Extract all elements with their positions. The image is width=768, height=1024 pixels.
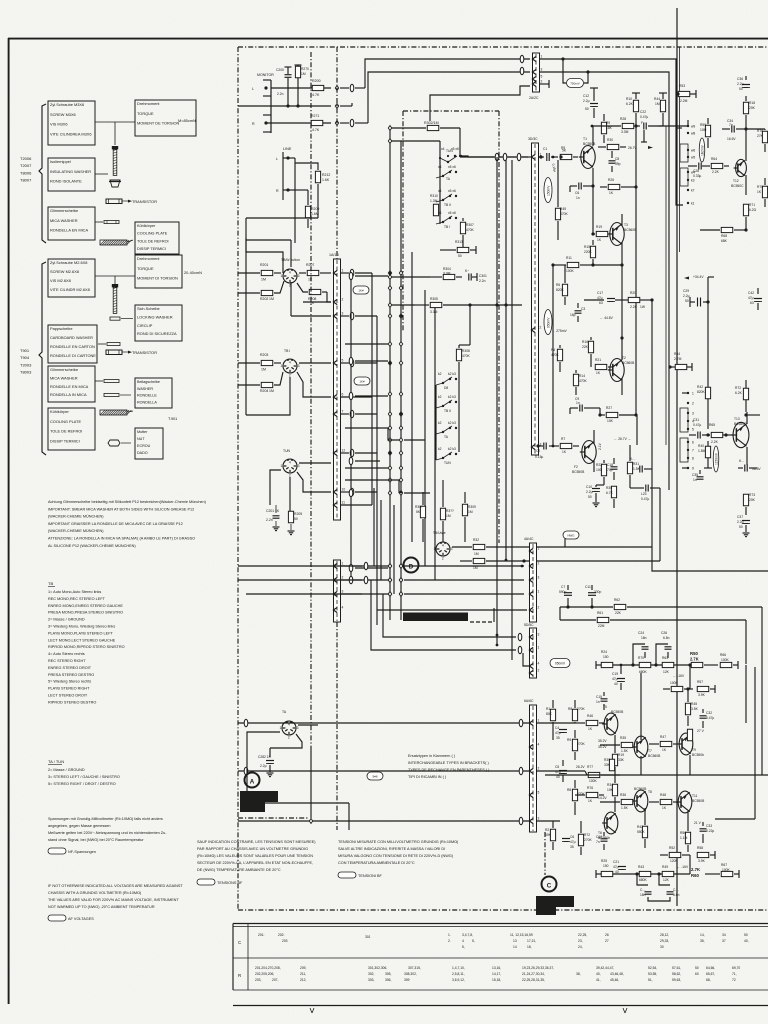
svg-text:R77: R77 [587, 765, 593, 769]
svg-text:C301: C301 [479, 274, 487, 278]
svg-text:R25: R25 [601, 859, 607, 863]
resistor R63 12K [662, 662, 674, 667]
svg-text:27: 27 [605, 939, 609, 943]
bus verticals x375-470 [371, 273, 373, 505]
svg-text:C33: C33 [706, 824, 712, 828]
resistor R34 10K [612, 784, 617, 796]
svg-text:305,: 305, [385, 972, 392, 976]
svg-text:7: 7 [342, 410, 344, 414]
svg-text:28,12,: 28,12, [660, 933, 669, 937]
svg-text:1K#: 1K# [359, 379, 365, 383]
capacitor L23 0.47u [645, 485, 647, 492]
circled D [404, 558, 419, 573]
svg-text:100K: 100K [722, 868, 731, 872]
capacitor C5 47u [559, 770, 567, 772]
svg-text:DISSIP TERMICI: DISSIP TERMICI [50, 439, 80, 444]
svg-text:65,67,: 65,67, [706, 972, 715, 976]
svg-text:R58: R58 [697, 846, 703, 850]
svg-text:47µ: 47µ [612, 677, 618, 681]
svg-text:50: 50 [695, 966, 699, 970]
svg-text:C6: C6 [575, 191, 579, 195]
wire row 821 [537, 820, 560, 822]
svg-text:TRANSISTOR: TRANSISTOR [132, 350, 157, 355]
strip contact pin 2 [333, 577, 337, 582]
svg-text:309: 309 [404, 978, 410, 982]
svg-text:(Ri=10MΩ) LES VALEURS SONT VA: (Ri=10MΩ) LES VALEURS SONT VALABLES POUR… [197, 854, 313, 858]
svg-text:100K: 100K [721, 658, 730, 662]
wires output right column [745, 620, 747, 664]
svg-text:LECT STEREO DROIT: LECT STEREO DROIT [48, 694, 88, 698]
svg-text:6.8n: 6.8n [673, 893, 680, 897]
svg-text:2A/2C: 2A/2C [529, 96, 539, 100]
svg-text:2.2µ: 2.2µ [683, 294, 690, 298]
svg-text:C29: C29 [683, 289, 689, 293]
svg-text:k2: k2 [438, 447, 442, 451]
svg-text:3: 3 [297, 726, 299, 730]
svg-text:TB I: TB I [284, 349, 290, 353]
svg-text:R59: R59 [700, 123, 706, 127]
screw icon 2 [112, 284, 118, 287]
svg-text:TB II: TB II [444, 203, 451, 207]
svg-text:x5 x6: x5 x6 [451, 147, 459, 151]
dash vertical x545 low [544, 832, 546, 875]
svg-text:47µ: 47µ [570, 840, 576, 844]
strip contact pin 1 [333, 563, 337, 568]
svg-text:1.6K: 1.6K [322, 178, 330, 182]
svg-text:50: 50 [685, 299, 689, 303]
svg-text:R6: R6 [556, 283, 560, 287]
table frame [233, 923, 768, 925]
svg-text:308,302,: 308,302, [404, 972, 417, 976]
svg-text:R54: R54 [674, 352, 680, 356]
svg-text:PAR RAPPORT AU CHASSIS AVEC: PAR RAPPORT AU CHASSIS AVEC UN VOLTMETRE… [197, 847, 308, 851]
svg-text:R30: R30 [606, 486, 612, 490]
svg-text:27K: 27K [757, 134, 764, 138]
pin2 stub [540, 83, 549, 85]
svg-text:L: L [252, 87, 254, 91]
svg-text:50: 50 [744, 933, 748, 937]
svg-text:TIPI DI RICAMBI IN ( ): TIPI DI RICAMBI IN ( ) [408, 775, 447, 779]
svg-text:11, 12,15,16,59: 11, 12,15,16,59 [510, 933, 533, 937]
svg-text:k2: k2 [438, 395, 442, 399]
svg-text:L: L [276, 157, 278, 161]
svg-text:1: 1 [538, 547, 540, 551]
svg-text:CON TEMPERATURA AMBIENTALE: CON TEMPERATURA AMBIENTALE DI 20°C [338, 861, 415, 865]
capacitor C282 2.2u [266, 760, 274, 762]
svg-text:6.2Ω: 6.2Ω [749, 208, 757, 212]
svg-text:150: 150 [603, 655, 609, 659]
svg-text:ECROU: ECROU [137, 444, 151, 448]
svg-text:1M: 1M [446, 514, 451, 518]
resistor R75 1K [762, 186, 767, 198]
resistor R71 6.2K [743, 204, 748, 216]
legend box mica washer 1 [48, 207, 95, 240]
svg-text:C42: C42 [748, 291, 754, 295]
svg-text:T.901: T.901 [168, 417, 177, 421]
wires top amp outputs [629, 445, 631, 458]
svg-text:2,5,8,11,: 2,5,8,11, [452, 972, 465, 976]
svg-text:R40: R40 [698, 444, 704, 448]
svg-text:203: 203 [282, 939, 288, 943]
cardboard washer icon [98, 343, 106, 345]
capacitor C36 2.2u [742, 84, 750, 86]
wires T13 [746, 412, 748, 424]
legend box cooling plate 1 [135, 222, 179, 254]
svg-text:Meßwerte gelten bei 220V~-Netz: Meßwerte gelten bei 220V~-Netzspannung u… [48, 831, 167, 835]
legend box torque 1 [135, 100, 196, 136]
svg-text:R73: R73 [749, 493, 755, 497]
svg-text:71,: 71, [732, 972, 737, 976]
resistor R76 27K [762, 131, 767, 143]
svg-text:RIPROD MONO,RIPROD STERO SI: RIPROD MONO,RIPROD STERO SINISTRO [48, 645, 125, 649]
svg-text:5D/5C: 5D/5C [524, 623, 534, 627]
svg-text:R14: R14 [579, 374, 585, 378]
svg-text:R45: R45 [560, 207, 566, 211]
svg-text:12: 12 [342, 449, 346, 453]
svg-text:R15: R15 [584, 245, 590, 249]
svg-text:THE VALUES ARE VALID FOR 220V: THE VALUES ARE VALID FOR 220V% AC MAINS … [48, 898, 179, 902]
svg-text:TOLE DE REFROI: TOLE DE REFROI [137, 239, 169, 243]
svg-text:2: 2 [540, 326, 542, 330]
svg-text:Drehmoment: Drehmoment [137, 101, 160, 106]
resistor R46 1K [586, 720, 598, 725]
svg-text:R70: R70 [638, 656, 644, 660]
capacitor C35 1n [697, 476, 704, 478]
svg-text:58,62,: 58,62, [672, 972, 681, 976]
svg-text:12K: 12K [663, 878, 670, 882]
svg-text:14.2V: 14.2V [598, 796, 607, 800]
legend box locking washer [135, 305, 182, 341]
legend connect lines 1 [95, 121, 135, 123]
svg-text:R21: R21 [595, 358, 601, 362]
svg-text:k2 k3: k2 k3 [448, 421, 456, 425]
svg-text:2.7M: 2.7M [674, 357, 682, 361]
svg-text:SAUF INDICATION CONTRAIRE, L: SAUF INDICATION CONTRAIRE, LES TENSIONS … [197, 840, 316, 844]
svg-text:← -16V: ← -16V [673, 674, 685, 678]
oval NWG small [563, 531, 579, 539]
svg-text:1= Auto Mono,Auto Stereo lin: 1= Auto Mono,Auto Stereo links [48, 590, 101, 594]
svg-text:R207: R207 [306, 263, 314, 267]
svg-text:1: 1 [538, 719, 540, 723]
svg-text:Pappscheibe: Pappscheibe [50, 326, 73, 331]
resistor R42 820K [705, 387, 710, 399]
oval tensioni bf [338, 872, 356, 878]
capacitor C16 [601, 838, 608, 840]
svg-text:820K: 820K [556, 288, 565, 292]
svg-text:k2 k3: k2 k3 [448, 447, 456, 451]
svg-text:IMPORTANT GRAISSER LA RONDEL: IMPORTANT GRAISSER LA RONDELLE DE MICA A… [48, 522, 183, 526]
resistor R55 3.3K [687, 729, 692, 741]
svg-text:← -16V: ← -16V [677, 865, 689, 869]
wires TA [298, 724, 318, 726]
svg-text:45,46,: 45,46, [610, 978, 619, 982]
svg-text:3,6,9,12,: 3,6,9,12, [452, 978, 465, 982]
resistor R57 3.9K [697, 686, 709, 691]
svg-text:RONDELLA: RONDELLA [137, 400, 157, 404]
svg-text:NUT: NUT [137, 437, 145, 441]
svg-text:RIPROD STEREO DESTRO: RIPROD STEREO DESTRO [48, 700, 96, 704]
pins monitor rows [335, 86, 338, 91]
svg-text:C2: C2 [536, 449, 540, 453]
svg-text:3: 3 [538, 817, 540, 821]
bus wires right x425 x435 [424, 290, 426, 566]
svg-text:0.47µ: 0.47µ [693, 423, 701, 427]
right edge verticals [761, 665, 763, 775]
svg-text:C8: C8 [615, 157, 619, 161]
wire w row to right [687, 114, 689, 120]
resistor R10 6.2K [633, 100, 638, 112]
mid rail y775 [545, 774, 768, 776]
wire strip pins right side [350, 269, 354, 276]
svg-text:(WACKER-CHEMIE MÜNCHEN): (WACKER-CHEMIE MÜNCHEN) [48, 529, 104, 533]
svg-text:R2: R2 [545, 828, 549, 832]
svg-text:R45: R45 [691, 702, 697, 706]
svg-text:1M: 1M [474, 552, 479, 556]
resistor R27 10K [606, 412, 618, 417]
svg-text:C37: C37 [737, 515, 743, 519]
svg-text:22K: 22K [582, 345, 589, 349]
svg-text:K…: K… [630, 457, 636, 461]
svg-text:60: 60 [695, 972, 699, 976]
capacitor C33 0.22u [700, 828, 707, 830]
svg-text:40,: 40, [744, 939, 749, 943]
svg-text:3: 3 [538, 576, 540, 580]
svg-text:35,: 35, [700, 939, 705, 943]
svg-text:C26: C26 [661, 631, 667, 635]
capacitor C37 2.2u [742, 520, 750, 522]
resistor R56 1.1M [685, 832, 690, 844]
svg-text:1: 1 [538, 590, 540, 594]
svg-text:16.6V: 16.6V [727, 137, 736, 141]
svg-text:4: 4 [462, 939, 464, 943]
transistor label 2 [106, 350, 122, 355]
svg-text:26.2V: 26.2V [576, 765, 585, 769]
feedback box right [734, 620, 736, 665]
svg-text:R307: R307 [466, 223, 474, 227]
svg-text:Kühlkörper: Kühlkörper [137, 224, 156, 228]
svg-text:RONDELLE EN MICA: RONDELLE EN MICA [50, 384, 89, 389]
resistor R33 [473, 558, 485, 563]
svg-text:x5 x6: x5 x6 [448, 189, 456, 193]
svg-text:7n: 7n [729, 123, 733, 127]
resistor R73 20K [743, 494, 748, 506]
svg-text:1A/1D: 1A/1D [329, 253, 339, 257]
svg-text:4: 4 [289, 461, 291, 465]
svg-text:68K: 68K [721, 239, 728, 243]
svg-text:2: 2 [442, 556, 444, 560]
svg-text:52,54,: 52,54, [648, 966, 657, 970]
circled A [245, 773, 260, 788]
svg-text:3= Wiederg Mono, Wiederg Ste: 3= Wiederg Mono, Wiederg Stereo links [48, 625, 115, 629]
svg-text:LECT MONO,LECT STEREO GAUCHE: LECT MONO,LECT STEREO GAUCHE [48, 638, 116, 642]
svg-text:5: 5 [538, 791, 540, 795]
svg-text:DE (NWG) TEMPERATURE AMBIANT: DE (NWG) TEMPERATURE AMBIANTE DE 20°C [197, 868, 281, 872]
wires F2 [593, 430, 595, 444]
svg-text:BC560B: BC560B [648, 754, 661, 758]
legend box insulating washer [48, 158, 95, 191]
circled C [542, 877, 557, 892]
resistor R42b 550K [642, 826, 647, 838]
resistor R201 1M [238, 272, 260, 274]
svg-text:Isoliernippel: Isoliernippel [50, 159, 71, 164]
svg-text:470K: 470K [579, 379, 588, 383]
svg-text:5: 5 [342, 359, 344, 363]
svg-text:R200: R200 [312, 79, 321, 83]
svg-text:R271: R271 [311, 114, 319, 118]
svg-text:R76: R76 [587, 786, 593, 790]
feedback nested wires top [540, 59, 683, 205]
svg-text:19,23,26,29,33,36,37,: 19,23,26,29,33,36,37, [522, 966, 554, 970]
svg-text:k2 k3: k2 k3 [448, 395, 456, 399]
svg-text:R19: R19 [618, 753, 624, 757]
wires T3 [621, 214, 623, 226]
svg-text:34: 34 [722, 933, 726, 937]
din socket TA [282, 721, 296, 735]
svg-text:R1: R1 [546, 707, 550, 711]
capacitor C11 330p [588, 592, 596, 594]
resistor R24 150 [601, 662, 613, 667]
capacitor C29 2.2u [697, 298, 699, 307]
svg-text:C28: C28 [693, 169, 699, 173]
resistor R67 100K [721, 871, 733, 876]
svg-text:70p: 70p [607, 468, 613, 472]
svg-text:14,: 14, [700, 933, 705, 937]
svg-text:R42: R42 [637, 825, 643, 829]
svg-text:12K: 12K [663, 670, 670, 674]
svg-text:1n: 1n [576, 196, 580, 200]
svg-text:ATTENZIONE: LA RONDELLA IN MI: ATTENZIONE: LA RONDELLA IN MICA VA SPALM… [48, 537, 195, 541]
svg-text:2: 2 [538, 669, 540, 673]
resistor R50 2.7K [691, 662, 703, 667]
din socket D TB/U [436, 542, 450, 556]
svg-text:8: 8 [692, 457, 694, 461]
svg-text:BC560B: BC560B [624, 228, 637, 232]
transistor T9 [679, 733, 693, 755]
wires D to strip 4A4C [404, 565, 524, 567]
svg-text:R36: R36 [620, 793, 626, 797]
svg-text:50: 50 [588, 495, 592, 499]
transistor T12 [736, 159, 747, 176]
svg-text:k7: k7 [691, 189, 695, 193]
resistor R70 680K [639, 662, 651, 667]
svg-text:R16: R16 [582, 340, 588, 344]
svg-text:MICA WASHER: MICA WASHER [50, 375, 78, 380]
strip contact pin 1 [333, 270, 337, 275]
resistor R4 470K [557, 349, 562, 361]
svg-text:R313: R313 [455, 240, 463, 244]
svg-text:59,63,: 59,63, [672, 978, 681, 982]
svg-text:F: F [641, 121, 643, 125]
svg-text:3: 3 [538, 633, 540, 637]
oval 150mv rot [544, 178, 552, 203]
resistor R39 33K [609, 759, 614, 771]
resistor R204 1M [261, 382, 273, 387]
resistor R19 1K [596, 231, 608, 236]
svg-text:5,: 5, [462, 945, 465, 949]
resistor R65 2.2K [711, 432, 723, 437]
svg-text:6.2K: 6.2K [626, 102, 634, 106]
svg-text:35.2V: 35.2V [598, 745, 607, 749]
svg-text:R304: R304 [443, 267, 451, 271]
svg-text:TENSIONI MISURATE CON MILL: TENSIONI MISURATE CON MILLIVOLTMETRO GRU… [338, 840, 459, 844]
svg-text:4: 4 [289, 361, 291, 365]
svg-text:307,315,: 307,315, [408, 966, 421, 970]
svg-text:K…: K… [739, 459, 745, 463]
svg-text:13: 13 [513, 939, 517, 943]
svg-text:1: 1 [434, 547, 436, 551]
resistor R202 1M [261, 290, 273, 295]
svg-text:R3??: R3?? [446, 509, 454, 513]
svg-text:IF NOT OTHERWISE INDICATED AL: IF NOT OTHERWISE INDICATED ALL VOLTAGES … [48, 884, 183, 888]
wires switch box verticals [445, 284, 447, 305]
svg-text:1M: 1M [261, 368, 266, 372]
page bottom border [233, 1005, 768, 1007]
capacitor C26 6.8n [665, 646, 672, 648]
legend box nut [135, 428, 163, 459]
capacitor C4 47u [559, 729, 567, 731]
resistor R48 1K [660, 799, 672, 804]
svg-text:WASHER: WASHER [137, 387, 153, 391]
svg-text:1M: 1M [269, 297, 274, 301]
svg-text:C200: C200 [276, 68, 284, 72]
legend box cardboard washer [48, 325, 97, 363]
svg-text:R30: R30 [607, 138, 613, 142]
resistor R44 1M [660, 100, 665, 112]
wire line L down [294, 158, 296, 243]
svg-text:C19: C19 [612, 672, 618, 676]
svg-text:47µ: 47µ [613, 865, 619, 869]
svg-text:69,70: 69,70 [732, 966, 740, 970]
capacitor C1 [538, 156, 544, 158]
svg-text:1K#: 1K# [358, 288, 364, 292]
svg-text:T8: T8 [648, 790, 652, 794]
svg-text:2: 2 [538, 562, 540, 566]
svg-text:4: 4 [288, 723, 290, 727]
svg-text:R53: R53 [679, 84, 685, 88]
dash under bar [470, 621, 494, 623]
svg-text:22,25,: 22,25, [578, 933, 587, 937]
svg-text:k2: k2 [438, 372, 442, 376]
svg-text:R47: R47 [660, 735, 666, 739]
wires R304 row [390, 276, 430, 278]
svg-text:L23: L23 [641, 492, 647, 496]
svg-text:203,: 203, [255, 978, 262, 982]
svg-text:R75: R75 [757, 185, 763, 189]
transistor F2 [582, 441, 596, 464]
svg-text:41,: 41, [596, 978, 601, 982]
svg-text:3,4,7,8,: 3,4,7,8, [462, 933, 473, 937]
svg-text:TUN: TUN [444, 461, 451, 465]
svg-text:950mV: 950mV [547, 317, 551, 328]
svg-text:2= Masse / GROUND: 2= Masse / GROUND [48, 768, 85, 772]
svg-text:C24: C24 [638, 631, 644, 635]
svg-text:x5 x6: x5 x6 [448, 165, 456, 169]
svg-text:w9: w9 [691, 125, 695, 129]
svg-text:35: 35 [556, 736, 560, 740]
svg-text:6: 6 [342, 393, 344, 397]
svg-text:50: 50 [739, 525, 743, 529]
svg-text:R201: R201 [260, 263, 268, 267]
black bar D [403, 613, 468, 622]
svg-text:R44: R44 [654, 97, 660, 101]
svg-text:10Ω: 10Ω [596, 468, 603, 472]
svg-text:2: 2 [342, 576, 344, 580]
svg-text:17,21,: 17,21, [527, 939, 536, 943]
svg-text:2.7K: 2.7K [690, 657, 699, 662]
svg-text:R9: R9 [567, 738, 571, 742]
svg-text:63: 63 [750, 301, 754, 305]
resistor R31 1.5K [627, 462, 632, 474]
